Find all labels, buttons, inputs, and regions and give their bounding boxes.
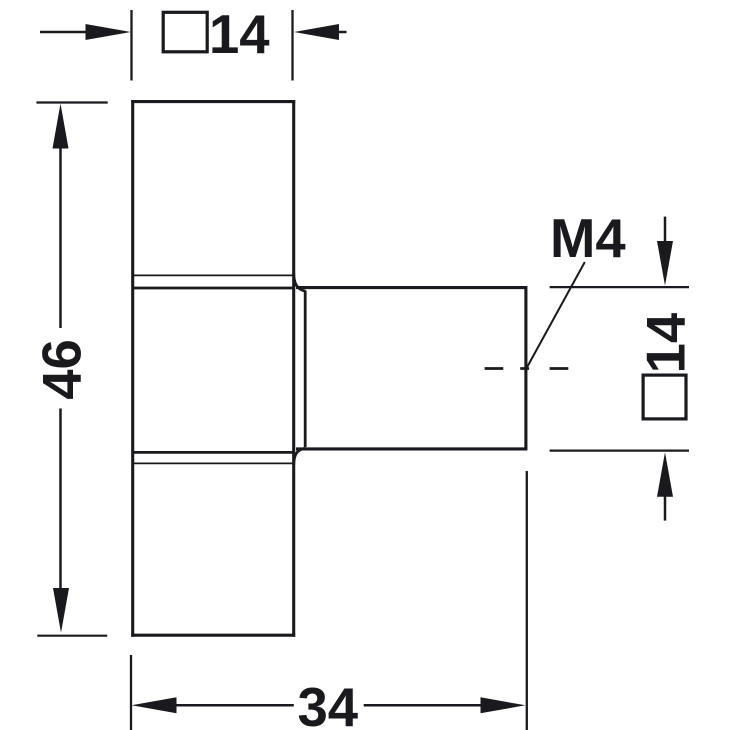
- svg-text:34: 34: [298, 677, 359, 730]
- svg-text:14: 14: [209, 4, 270, 65]
- svg-text:46: 46: [32, 339, 93, 400]
- svg-text:M4: M4: [550, 208, 626, 269]
- svg-text:14: 14: [636, 312, 697, 373]
